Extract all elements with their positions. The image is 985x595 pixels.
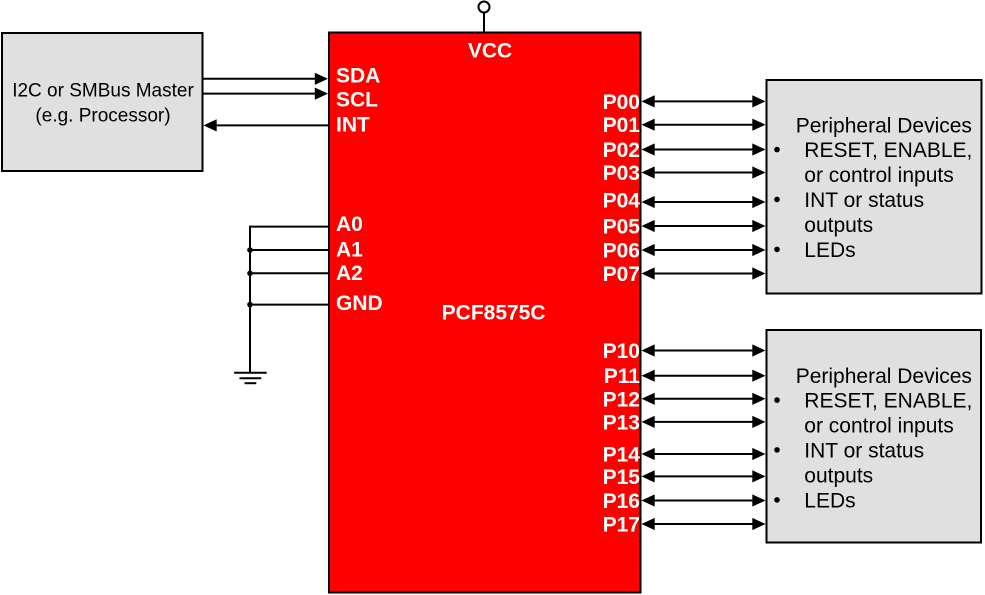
svg-text:P02: P02 <box>603 139 640 162</box>
wire GND pin <box>250 304 328 306</box>
svg-text:SDA: SDA <box>336 65 380 88</box>
wire SDA (master to U1, arrow right) <box>204 73 329 85</box>
ground <box>234 373 267 383</box>
svg-text:P14: P14 <box>603 444 641 467</box>
svg-text:P17: P17 <box>603 514 640 537</box>
svg-text:LEDs: LEDs <box>804 489 855 512</box>
svg-text:VCC: VCC <box>468 40 512 63</box>
svg-text:outputs: outputs <box>804 214 873 237</box>
wire P05 (bidirectional) <box>642 220 766 232</box>
svg-text:P04: P04 <box>603 189 641 212</box>
svg-text:RESET, ENABLE,: RESET, ENABLE, <box>804 139 972 162</box>
svg-text:SCL: SCL <box>336 89 378 112</box>
wire P13 (bidirectional) <box>642 416 766 428</box>
svg-text:or control inputs: or control inputs <box>804 164 953 187</box>
wire P02 (bidirectional) <box>642 143 766 155</box>
wire INT (U1 to master, arrow left) <box>204 119 329 131</box>
svg-text:LEDs: LEDs <box>804 239 855 262</box>
svg-text:P12: P12 <box>603 388 640 411</box>
svg-text:INT or status: INT or status <box>804 189 924 212</box>
wire P17 (bidirectional) <box>642 518 766 530</box>
svg-text:A0: A0 <box>336 213 363 236</box>
svg-text:P13: P13 <box>603 411 640 434</box>
wire SCL (master to U1, arrow right) <box>204 88 329 100</box>
svg-text:or control inputs: or control inputs <box>804 414 953 437</box>
svg-text:INT or status: INT or status <box>804 439 924 462</box>
svg-text:Peripheral Devices: Peripheral Devices <box>796 365 972 388</box>
wire P07 (bidirectional) <box>642 267 766 279</box>
svg-text:P15: P15 <box>603 466 641 489</box>
svg-text:A2: A2 <box>336 262 363 285</box>
svg-text:P11: P11 <box>604 365 641 388</box>
junction dot GND <box>247 302 253 308</box>
block: I2C or SMBus Master (e.g. Processor) <box>2 33 203 171</box>
svg-text:PCF8575C: PCF8575C <box>442 302 546 325</box>
svg-text:I2C or SMBus Master: I2C or SMBus Master <box>12 80 194 101</box>
svg-text:P03: P03 <box>603 162 640 185</box>
svg-text:P01: P01 <box>603 114 641 137</box>
wire P12 (bidirectional) <box>642 393 766 405</box>
wire P10 (bidirectional) <box>642 344 766 356</box>
block: Peripheral Devices (port 1) <box>767 330 982 543</box>
svg-text:GND: GND <box>336 292 383 315</box>
svg-text:Peripheral Devices: Peripheral Devices <box>796 114 972 137</box>
junction dot A2 <box>247 271 253 277</box>
wire A1 <box>250 249 328 251</box>
svg-text:P10: P10 <box>603 340 640 363</box>
wire A2 <box>250 272 328 274</box>
svg-text:P05: P05 <box>603 216 641 239</box>
wire P03 (bidirectional) <box>642 166 766 178</box>
block: Peripheral Devices (port 0) <box>767 80 982 294</box>
wire P15 (bidirectional) <box>642 470 766 482</box>
svg-text:P00: P00 <box>603 91 640 114</box>
wire P00 (bidirectional) <box>642 95 766 107</box>
svg-text:A1: A1 <box>336 239 363 262</box>
wire A0 <box>250 226 328 228</box>
svg-text:outputs: outputs <box>804 465 873 488</box>
svg-text:P07: P07 <box>603 263 640 286</box>
wire P16 (bidirectional) <box>642 494 766 506</box>
IC U1 PCF8575C body <box>329 33 641 593</box>
svg-text:INT: INT <box>336 113 370 136</box>
svg-text:RESET, ENABLE,: RESET, ENABLE, <box>804 390 972 413</box>
wire address bus vertical <box>249 226 251 373</box>
junction dot A1 <box>247 247 253 253</box>
wire P04 (bidirectional) <box>642 196 766 208</box>
svg-text:P06: P06 <box>603 240 640 263</box>
wire P11 (bidirectional) <box>642 370 766 382</box>
wire P14 (bidirectional) <box>642 448 766 460</box>
power VCC terminal <box>479 2 490 33</box>
svg-text:(e.g. Processor): (e.g. Processor) <box>35 106 170 127</box>
wire P01 (bidirectional) <box>642 119 766 131</box>
svg-text:P16: P16 <box>603 490 640 513</box>
wire P06 (bidirectional) <box>642 244 766 256</box>
